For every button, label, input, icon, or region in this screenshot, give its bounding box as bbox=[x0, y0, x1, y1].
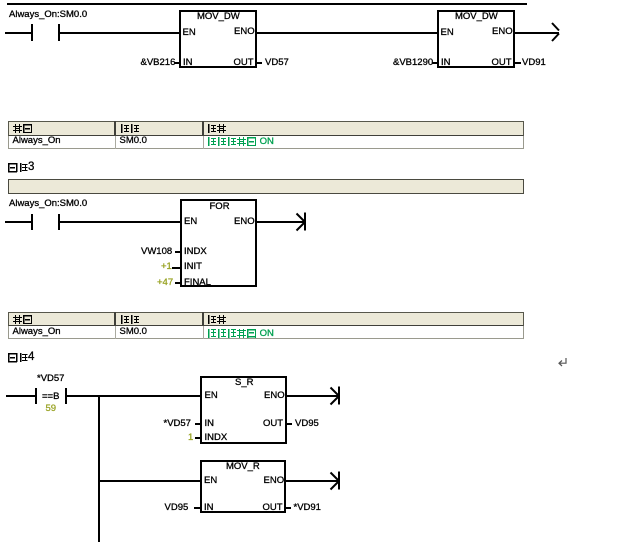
table 2 cell Always_On bbox=[13, 327, 61, 337]
pin EN U2 bbox=[441, 28, 454, 38]
table 2 header cell: symbol (符号) bbox=[13, 315, 33, 325]
network 4 label (网络 4) bbox=[8, 353, 29, 363]
wire: left rail to contact bbox=[5, 32, 31, 34]
wire: vertical branch rail bbox=[98, 395, 100, 542]
table 2 data row bbox=[8, 326, 524, 339]
table 1 data row bbox=[8, 136, 524, 149]
pin ENO U2 bbox=[492, 27, 513, 37]
wire: branch rail to MOV_R box bbox=[98, 480, 200, 482]
pin OUT U4 bbox=[263, 419, 283, 429]
label MOV_DW U2 title bbox=[455, 12, 498, 22]
table 1 header cell: comment (注释) bbox=[207, 124, 227, 134]
continuation arrow with bar, network 3 bbox=[296, 212, 308, 232]
table 2 header cell: comment (注释) bbox=[207, 315, 227, 325]
pin INIT U3 bbox=[184, 262, 202, 272]
operand *VD91 (output) bbox=[294, 503, 321, 513]
table 1 header separator 2 bbox=[202, 121, 204, 136]
table 2 header separator 1 bbox=[114, 312, 116, 326]
pin IN U1 bbox=[183, 58, 193, 68]
operand VD57 bbox=[265, 58, 289, 68]
network 3 comment bar bbox=[8, 179, 524, 194]
pin FINAL U3 bbox=[184, 278, 211, 288]
operand +1 (constant) bbox=[161, 262, 172, 272]
operand &VB1290 bbox=[393, 58, 433, 68]
wire: MOV_DW2 to continuation arrow bbox=[515, 32, 559, 34]
wire: tick OUT to VD95 bbox=[287, 423, 292, 425]
wire: S_R ENO to arrow bbox=[287, 395, 338, 397]
contact Always_On (right bar) bbox=[58, 24, 60, 41]
wire: tick 1 to INDX bbox=[195, 437, 200, 439]
wire: tick VD95 to IN bbox=[194, 507, 200, 509]
pin ENO U1 bbox=[234, 27, 255, 37]
label ==B bbox=[42, 392, 59, 402]
wire: tick VW108 to INDX bbox=[175, 251, 180, 253]
pin IN U4 bbox=[205, 419, 215, 429]
table 1 header separator 1 bbox=[114, 121, 116, 136]
wire: top boundary line of previous network bbox=[7, 3, 527, 5]
pin EN U5 bbox=[204, 476, 217, 486]
wire: tick OUT to VD91 bbox=[515, 62, 521, 64]
continuation arrow (open chevron), network 2 bbox=[550, 21, 562, 43]
wire: tick OUT to VD57 bbox=[257, 62, 262, 64]
wire: contact to S_R box bbox=[67, 395, 201, 397]
pin EN U1 bbox=[183, 28, 196, 38]
wire: FOR ENO to arrow bbox=[257, 221, 304, 223]
table 1 cell comment green (始终接通为 ON) bbox=[207, 137, 274, 147]
wire: MOV_DW1 to MOV_DW2 bbox=[257, 32, 437, 34]
wire: MOV_R ENO to arrow bbox=[286, 480, 338, 482]
operand &VB216 bbox=[141, 58, 176, 68]
pin ENO U4 bbox=[264, 391, 285, 401]
pin ENO U3 bbox=[234, 217, 255, 227]
compare contact ==B (right bar) bbox=[65, 388, 67, 405]
wire: left rail to contact (network 3) bbox=[5, 221, 31, 223]
label S_R title bbox=[235, 378, 253, 388]
symbol table 1 bbox=[8, 121, 524, 149]
table 2 cell comment green bbox=[207, 329, 274, 339]
table 1 header row bbox=[8, 121, 524, 137]
pin OUT U2 bbox=[492, 58, 512, 68]
operand VD95 to IN bbox=[165, 503, 189, 513]
box MOV_DW U2 bbox=[437, 10, 515, 68]
pin INDX U3 bbox=[184, 247, 207, 257]
table 2 row separator 1 bbox=[115, 326, 116, 339]
operand 59 (constant) bbox=[46, 404, 57, 414]
table 2 row separator 2 bbox=[203, 326, 204, 339]
pin ENO U5 bbox=[264, 476, 285, 486]
pin IN U5 bbox=[204, 503, 214, 513]
network 3 label (网络 3) bbox=[8, 163, 29, 173]
table 1 row separator 2 bbox=[203, 136, 204, 149]
continuation arrow with bar, MOV_R branch bbox=[330, 471, 342, 491]
table 2 header separator 2 bbox=[202, 312, 204, 326]
box MOV_DW U1 bbox=[179, 10, 257, 68]
operand *VD57 to IN bbox=[164, 419, 191, 429]
wire: tick OUT to *VD91 bbox=[286, 507, 291, 509]
box S_R U4 bbox=[200, 376, 287, 444]
contact Always_On net3 (right bar) bbox=[58, 214, 60, 231]
box FOR U3 bbox=[180, 199, 257, 287]
continuation arrow with bar, S_R branch bbox=[330, 386, 342, 406]
table 1 header cell: address (地址) bbox=[120, 124, 140, 134]
node label Always_On:SM0.0 (network 2) bbox=[9, 10, 87, 20]
table 1 cell Always_On bbox=[13, 136, 61, 146]
wire: tick *VD57 to IN bbox=[195, 423, 200, 425]
label MOV_DW U1 title bbox=[197, 12, 240, 22]
wire: tick &VB216 to IN bbox=[174, 62, 179, 64]
table 1 header cell: symbol (符号) bbox=[13, 124, 33, 134]
table 1 row separator 1 bbox=[115, 136, 116, 149]
wire: contact to FOR box bbox=[60, 221, 180, 223]
label MOV_R title bbox=[226, 462, 260, 472]
operand VD91 bbox=[522, 58, 546, 68]
wire: left rail to compare contact bbox=[6, 395, 35, 397]
operand 1 (constant) to INDX bbox=[188, 433, 193, 443]
node label *VD57 (above compare contact) bbox=[37, 374, 64, 384]
pin OUT U5 bbox=[263, 503, 283, 513]
table 2 header cell: address (地址) bbox=[120, 315, 140, 325]
table 2 cell SM0.0 bbox=[120, 327, 147, 337]
pin INDX U4 bbox=[205, 433, 228, 443]
node label Always_On:SM0.0 (network 3) bbox=[9, 199, 87, 209]
compare contact ==B (left bar) bbox=[35, 388, 37, 405]
symbol table 2 bbox=[8, 312, 524, 340]
operand +47 (constant) bbox=[157, 278, 173, 288]
wire: tick +1 to INIT bbox=[172, 267, 180, 269]
contact Always_On (left bar) bbox=[31, 24, 33, 41]
box MOV_R U5 bbox=[200, 460, 287, 513]
contact Always_On net3 (left bar) bbox=[31, 214, 33, 231]
pin OUT U1 bbox=[234, 58, 254, 68]
table 1 cell SM0.0 bbox=[120, 136, 147, 146]
pin EN U4 bbox=[205, 391, 218, 401]
operand VW108 bbox=[141, 247, 172, 257]
pin IN U2 bbox=[441, 58, 451, 68]
operand VD95 (output) bbox=[295, 419, 319, 429]
wire: tick &VB1290 to IN bbox=[432, 62, 437, 64]
pin EN U3 bbox=[184, 217, 197, 227]
table 2 header row bbox=[8, 312, 524, 327]
label FOR title bbox=[210, 202, 230, 212]
paragraph return mark bbox=[557, 357, 568, 368]
wire: contact to MOV_DW box 1 bbox=[60, 32, 179, 34]
wire: tick +47 to FINAL bbox=[175, 282, 180, 284]
